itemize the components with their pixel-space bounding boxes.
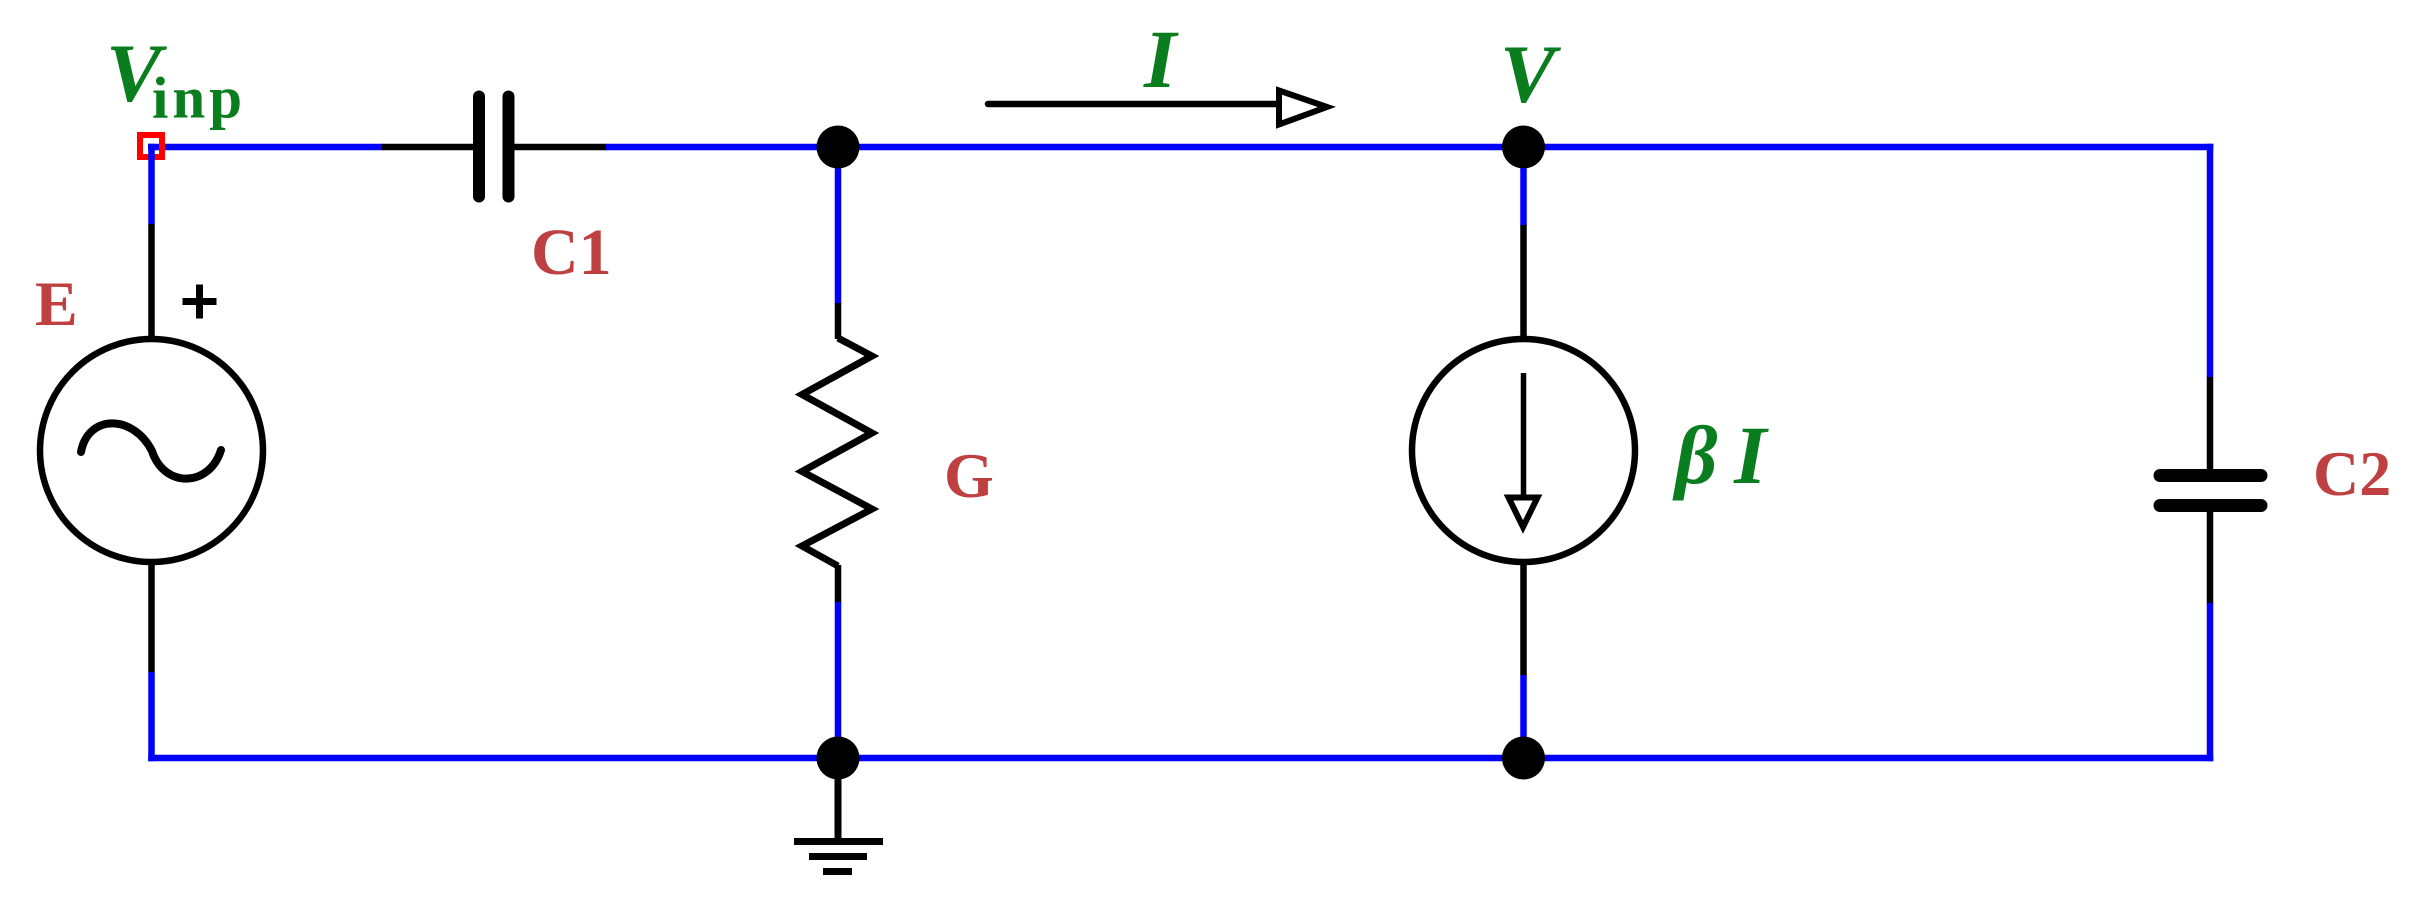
wire: dep source top lead <box>1520 225 1527 339</box>
capacitor C1 <box>479 97 509 197</box>
junction dot: bottom rail at dep source <box>1502 737 1545 780</box>
junction dot: node V <box>1502 126 1545 169</box>
wire: resistor G top lead <box>835 303 842 339</box>
node Vinp marker (red square) <box>140 135 162 157</box>
source E plus sign <box>183 285 217 319</box>
svg-text:V: V <box>1500 28 1561 120</box>
wire: E to bottom-left corner (blue) <box>148 672 155 761</box>
svg-text:C1: C1 <box>531 216 612 289</box>
wire: Vinp vertical (blue) <box>148 144 155 225</box>
svg-text:I: I <box>1143 13 1179 105</box>
svg-text:E: E <box>35 268 78 339</box>
svg-text:G: G <box>944 440 994 511</box>
wire: capacitor C2 bottom lead <box>2207 511 2214 604</box>
wire: top rail Vinp to C1 left lead <box>148 144 383 151</box>
wire: resistor branch bottom (blue) <box>835 602 842 758</box>
wire: source E bottom lead <box>148 564 155 673</box>
wire: C1 left lead <box>382 144 474 151</box>
wire: resistor G bottom lead <box>835 565 842 603</box>
wire: resistor branch top (blue) <box>835 147 842 304</box>
ground symbol <box>794 758 883 872</box>
source E circle <box>40 339 263 562</box>
wire: right branch bottom (blue) <box>2207 603 2214 761</box>
dep source arrow line <box>1521 373 1527 497</box>
dependent current source circle <box>1412 339 1635 562</box>
svg-text:inp: inp <box>152 65 246 131</box>
current arrow I shaft <box>988 101 1283 108</box>
junction dot: bottom rail at ground <box>817 737 860 780</box>
current arrow I head <box>1279 91 1327 125</box>
junction dot: top rail at resistor <box>817 126 860 169</box>
wire: C1 right lead <box>514 144 608 151</box>
wire: right branch top (blue) <box>2207 144 2214 378</box>
svg-text:C2: C2 <box>2313 438 2391 509</box>
capacitor C2 <box>2160 476 2261 506</box>
node Vinp label <box>106 27 246 131</box>
wire: source E top lead <box>148 224 155 339</box>
wire: capacitor C2 top lead <box>2207 377 2214 470</box>
dep source arrow head <box>1509 498 1538 528</box>
wire: bottom rail (blue) <box>148 755 2213 762</box>
resistor G zigzag <box>802 338 872 566</box>
wire: node V to dep source (blue) <box>1520 168 1527 226</box>
svg-text:β I: β I <box>1672 409 1769 501</box>
source E sine wave <box>81 423 221 478</box>
wire: dep source branch bottom (blue) <box>1520 675 1527 758</box>
wire: top rail C1 to top-right corner <box>606 144 2213 151</box>
wire: dep source bottom lead <box>1520 564 1527 676</box>
